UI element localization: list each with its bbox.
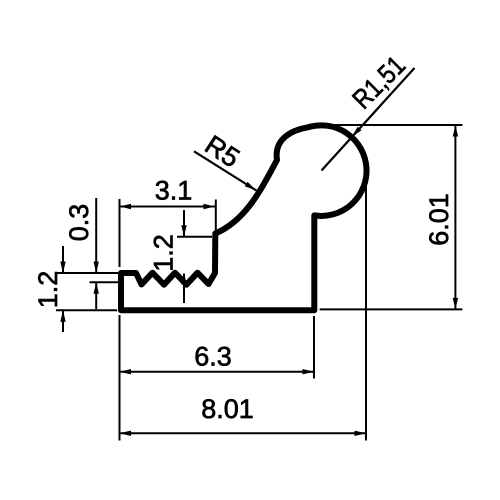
- svg-text:6.01: 6.01: [424, 193, 454, 246]
- svg-text:1.2: 1.2: [33, 271, 63, 309]
- svg-text:1.2: 1.2: [149, 234, 179, 272]
- svg-text:8.01: 8.01: [201, 394, 254, 424]
- svg-text:6.3: 6.3: [194, 342, 232, 372]
- svg-text:0.3: 0.3: [64, 204, 94, 242]
- svg-text:3.1: 3.1: [155, 176, 193, 206]
